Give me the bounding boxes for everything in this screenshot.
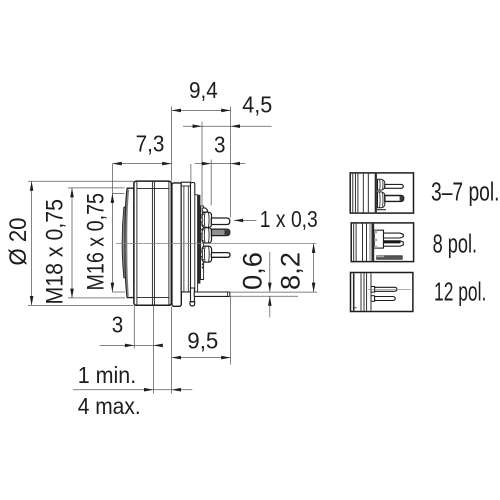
nut knurl line 2 xyxy=(151,182,153,305)
9,4 left arrow xyxy=(172,109,181,113)
0,6 top arrow xyxy=(268,283,272,292)
nut chamfer top xyxy=(137,187,169,189)
dia20 bottom arrow xyxy=(30,296,34,305)
crown 2 knob xyxy=(201,229,203,233)
ext line A (flange face) top xyxy=(171,107,173,181)
3 bottom right arrow xyxy=(153,344,162,348)
crown 3 lower studs xyxy=(202,263,204,268)
lock nut O20 xyxy=(134,181,171,305)
svg-text:3–7 pol.: 3–7 pol. xyxy=(431,178,500,206)
svg-text:M16 x 0,75: M16 x 0,75 xyxy=(83,193,110,291)
box3 body lines xyxy=(361,273,371,311)
pin 2 (sectioned, grey) xyxy=(211,229,229,236)
front thread M16 arc xyxy=(122,207,126,278)
crown 1 cap xyxy=(202,208,207,212)
rear shell P1 xyxy=(181,182,190,292)
ext line C (pin root) xyxy=(210,160,212,206)
1min right arrow xyxy=(172,388,181,392)
box2 bottom bar step xyxy=(377,256,385,257)
M16 bottom arrow xyxy=(111,283,115,292)
svg-text:7,3: 7,3 xyxy=(136,131,165,157)
box2 blade 2 dark top xyxy=(384,241,401,243)
crown 3 dark marks xyxy=(202,247,204,261)
crown 3 waist lines xyxy=(204,246,209,262)
dim 4,5 line xyxy=(183,125,272,127)
9,5 right arrow xyxy=(221,356,230,360)
bar top ext line xyxy=(230,291,317,293)
centerline xyxy=(116,243,317,245)
crown 3 knob xyxy=(201,252,203,257)
dim 8,2 line xyxy=(313,244,315,293)
VARIANT BOX 2 : 8 pol xyxy=(351,223,413,262)
box2 base block xyxy=(374,230,383,248)
box2 dark face xyxy=(372,224,375,261)
box1 crown 1 waist xyxy=(380,180,383,190)
box1 crown 2 waist xyxy=(380,192,383,207)
nut knurl line 1 xyxy=(136,182,138,305)
contact crown 3 xyxy=(202,246,212,262)
3 bottom left arrow xyxy=(125,344,134,348)
leader 1x0,3 line xyxy=(234,219,257,221)
box1 dark face xyxy=(375,174,377,213)
nut chamfer bottom xyxy=(137,297,169,299)
box2 grey band xyxy=(369,224,371,261)
svg-text:1 x 0,3: 1 x 0,3 xyxy=(260,206,318,232)
tab ext line xyxy=(190,164,192,182)
P1 step line xyxy=(181,185,190,187)
contact carrier strip xyxy=(201,206,204,280)
M18 ext bottom xyxy=(68,297,125,299)
contact crown 1 xyxy=(202,212,212,227)
ext nut knurl right bottom xyxy=(152,306,154,394)
front thread shading xyxy=(123,209,126,277)
box2 bottom bar xyxy=(377,256,403,259)
box3 dark left line xyxy=(353,273,355,311)
svg-text:M18 x 0,75: M18 x 0,75 xyxy=(42,199,69,305)
nut knurl line 3 xyxy=(153,182,155,305)
1x0,3 arrow xyxy=(234,219,243,223)
DIMENSIONS xyxy=(28,107,317,394)
crown 2 dark marks xyxy=(202,229,204,242)
box3 pin 2 root xyxy=(371,296,375,302)
box1 outline xyxy=(350,173,413,213)
box2 body lines xyxy=(354,224,367,261)
ext line D bottom xyxy=(230,296,232,364)
P1 inner line 2 xyxy=(187,186,189,292)
M16 dim line xyxy=(111,164,113,293)
bracket post dark joint xyxy=(191,301,195,302)
pin 1 xyxy=(211,218,229,225)
ext line B (contact face) xyxy=(201,122,203,207)
ARROWHEADS xyxy=(30,109,316,392)
box3 pin 2 xyxy=(375,297,396,301)
box3 pin 1 centerline xyxy=(368,288,411,290)
box2 blade 2 xyxy=(384,241,404,246)
M18 top arrow xyxy=(70,188,74,197)
svg-text:1 min.: 1 min. xyxy=(78,362,137,388)
box1 crown 2 xyxy=(378,192,385,208)
pin 2 dark tip xyxy=(225,229,230,236)
M18 dim line xyxy=(71,188,73,298)
crown 2 waist lines xyxy=(204,228,209,243)
crown 1 waist lines xyxy=(204,212,209,227)
pin 3 xyxy=(211,253,230,258)
dim 3 top line xyxy=(195,163,246,165)
VARIANT BOX 3 : 12 pol xyxy=(351,273,413,312)
svg-text:3: 3 xyxy=(214,132,226,158)
dim 0,6 line upper xyxy=(269,252,271,292)
4,5 left arrow xyxy=(193,124,202,128)
box1 bottom ledge xyxy=(377,209,386,211)
svg-text:Ø 20: Ø 20 xyxy=(5,218,32,266)
svg-text:8 pol.: 8 pol. xyxy=(433,230,478,258)
svg-text:8,2: 8,2 xyxy=(276,252,306,290)
svg-text:4,5: 4,5 xyxy=(242,92,272,118)
4,5 right arrow xyxy=(231,124,240,128)
7,3 left arrow xyxy=(112,162,121,166)
M16 top arrow xyxy=(111,194,115,203)
svg-text:9,4: 9,4 xyxy=(189,77,218,103)
box3 corner tick xyxy=(353,307,357,309)
box1 crown 1 xyxy=(378,179,385,190)
8,2 bottom arrow xyxy=(312,283,316,292)
bezel edge shading xyxy=(125,190,129,297)
box3 pin 1 xyxy=(375,287,397,291)
svg-text:0,6: 0,6 xyxy=(238,252,268,290)
box1 pin 1 xyxy=(385,184,404,188)
ext line A bottom xyxy=(171,307,173,394)
bar bottom ext line xyxy=(230,295,298,297)
box1 body lines xyxy=(353,174,369,213)
dim 3 bottom line xyxy=(100,344,163,346)
M16 ext top xyxy=(112,193,124,195)
bracket foot xyxy=(190,302,195,306)
insulator outline xyxy=(195,195,198,292)
box2 grey tabs xyxy=(374,230,377,248)
svg-text:3: 3 xyxy=(112,312,124,338)
nut rear rim line xyxy=(168,182,170,305)
svg-text:9,5: 9,5 xyxy=(187,327,218,353)
crown 1 knob xyxy=(201,218,203,222)
box1 pin 2 xyxy=(385,196,404,202)
crown 1 dark marks xyxy=(202,213,204,226)
solder bar tip tick xyxy=(227,292,229,296)
box3 outline xyxy=(351,273,413,312)
3 top right arrow xyxy=(231,162,240,166)
box2 blade 1 xyxy=(384,233,404,238)
M18 ext top xyxy=(68,187,125,189)
ext line D (pin tip) top xyxy=(230,107,232,218)
ext nut knurl left bottom xyxy=(133,306,135,349)
box2 outline xyxy=(351,223,413,262)
dia 20 ext top xyxy=(28,180,134,182)
dim 9,5 line xyxy=(172,357,231,359)
insulator dark band xyxy=(198,195,201,284)
P1 inner line 1 xyxy=(183,186,185,292)
M16 ext bottom xyxy=(112,291,125,293)
flange washer xyxy=(172,183,181,306)
7,3 right arrow xyxy=(162,162,171,166)
0,6 bottom arrow xyxy=(268,296,272,305)
dim 9,4 line xyxy=(172,109,231,111)
1min left arrow xyxy=(144,388,153,392)
dim 0,6 line lower xyxy=(269,297,271,318)
M18 bottom arrow xyxy=(70,289,74,298)
ground strip top tab xyxy=(191,183,195,195)
front bezel M18 xyxy=(125,188,134,297)
VARIANT BOX 1 : 3-7 pol xyxy=(350,173,413,213)
9,5 left arrow xyxy=(172,356,181,360)
POLE LABELS xyxy=(431,178,500,306)
svg-text:4 max.: 4 max. xyxy=(78,393,141,419)
9,4 right arrow xyxy=(221,109,230,113)
dia 20 ext bottom xyxy=(28,304,134,306)
dia 20 dim line xyxy=(31,181,33,305)
svg-text:12 pol.: 12 pol. xyxy=(434,278,486,306)
bracket post xyxy=(191,288,195,302)
8,2 top arrow xyxy=(312,244,316,253)
3 top left arrow xyxy=(202,162,211,166)
dim 1min 4max line xyxy=(73,389,192,391)
box1 pin 2 dark tip xyxy=(400,196,404,202)
solder bar xyxy=(194,292,230,296)
dia20 top arrow xyxy=(30,181,34,190)
dim 7,3 line xyxy=(112,163,171,165)
box3 pin 1 root xyxy=(371,287,375,293)
contact crown 2 xyxy=(202,228,212,243)
